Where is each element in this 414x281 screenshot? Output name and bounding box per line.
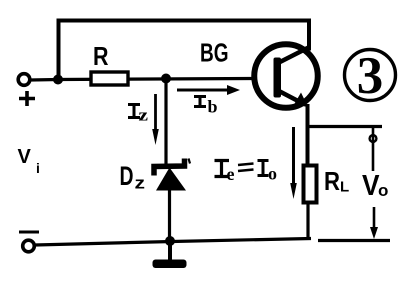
transistor collector stroke	[278, 48, 309, 64]
zener diode Dz cathode bar	[154, 159, 185, 176]
label Vi	[18, 146, 40, 176]
svg-text:e: e	[227, 164, 235, 184]
ground symbol	[153, 243, 187, 268]
svg-text:R: R	[93, 41, 109, 71]
label Ib	[194, 97, 218, 117]
transistor emitter stroke with arrowhead	[278, 91, 308, 108]
label Iz	[128, 105, 149, 125]
label Dz	[120, 161, 146, 193]
wire: zener branch upper segment	[164, 80, 167, 164]
label Ie = Io	[215, 161, 278, 185]
node: junction dot at zener branch	[161, 74, 171, 84]
Vo dimension upper arrow segment	[370, 128, 377, 171]
svg-text:V: V	[18, 146, 32, 168]
positive input terminal	[18, 74, 30, 86]
transistor base bar	[274, 58, 282, 98]
svg-text:o: o	[268, 164, 277, 184]
resistor R	[91, 72, 128, 85]
wire: bottom rail right portion	[318, 239, 390, 242]
svg-text:o: o	[378, 181, 388, 200]
wire: output horizontal to Vo arrow	[308, 125, 383, 128]
zener diode Dz anode triangle	[156, 159, 190, 191]
current arrow Iz	[152, 94, 159, 145]
wire: main horizontal input/base wire	[31, 79, 253, 81]
svg-text:z: z	[135, 174, 146, 193]
node: bottom junction dot at ground	[165, 236, 175, 246]
plus sign (+)	[19, 91, 35, 106]
svg-text:D: D	[120, 161, 134, 191]
resistor RL	[304, 166, 317, 203]
current arrow Ib	[177, 85, 240, 95]
wire: RL bottom to bottom rail	[306, 203, 309, 240]
label BG	[200, 38, 229, 68]
current arrow Ie	[290, 127, 297, 199]
svg-text:R: R	[324, 166, 340, 196]
svg-text:z: z	[139, 106, 149, 125]
label RL	[324, 166, 349, 196]
wire: emitter drop to RL	[306, 104, 310, 166]
svg-text:BG: BG	[200, 38, 229, 68]
svg-text:3: 3	[357, 47, 384, 105]
wire: zener branch lower segment	[168, 189, 171, 242]
Vo dimension lower arrow segment	[370, 207, 378, 239]
wire: top rail from left vertical to collector drop	[59, 21, 310, 78]
label Vo	[362, 170, 388, 202]
svg-text:i: i	[36, 160, 40, 176]
transistor BG outline circle	[254, 44, 318, 108]
negative input terminal	[23, 240, 35, 252]
wire: bottom rail left portion	[35, 239, 311, 246]
minus overline above negative terminal	[19, 231, 39, 234]
svg-text:b: b	[208, 97, 218, 117]
figure number 3 (circled)	[345, 47, 396, 105]
label R	[93, 41, 109, 71]
node: junction dot at left vertical	[53, 75, 63, 85]
svg-text:L: L	[340, 179, 349, 196]
